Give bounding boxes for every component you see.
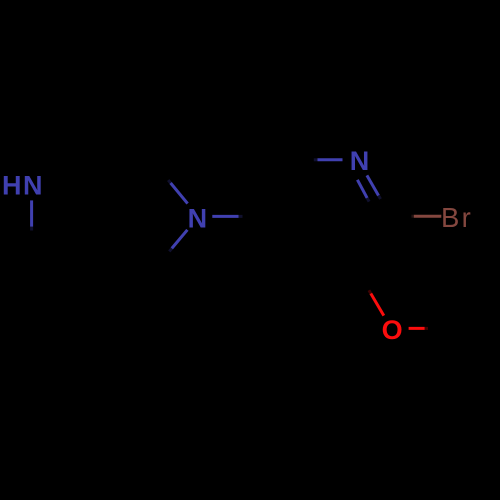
bond N4-C5' pyridine (blue half, horizontal right of N4) <box>212 215 238 218</box>
bond Npyr=C2 inner double-bond line (blue half) <box>357 180 367 198</box>
bond C2-Br (brown half, horizontal left of Br) <box>414 215 442 218</box>
tail of bond N4-C5 <box>169 248 172 251</box>
svg-text:O: O <box>382 315 403 345</box>
bond N4-C5 (blue half, diagonal down-left of N4) <box>172 230 188 249</box>
tail of double bond main line <box>379 196 381 200</box>
tail of bond C2-Br <box>411 215 413 218</box>
svg-text:N: N <box>188 203 208 233</box>
tail of bond N1-C7 <box>30 227 33 231</box>
tail of bond N4-C3 <box>168 180 170 183</box>
tail of bond C3-O <box>369 290 371 293</box>
svg-text:N: N <box>23 170 43 200</box>
bond O-CH3 (red half, horizontal right of O) <box>409 327 425 330</box>
bond N4-C3 (blue half, diagonal up-left of N4) <box>171 183 188 204</box>
tail of bond O-CH3 <box>425 327 428 330</box>
bond C3-O (red half, diagonal above O) <box>371 294 384 316</box>
svg-text:N: N <box>350 146 370 176</box>
tail of bond Npyr-C6 <box>314 158 318 161</box>
bond N1-C7 (blue half, vertical below HN) <box>30 200 33 226</box>
tail of double bond inner line <box>367 198 369 202</box>
svg-text:B: B <box>441 202 459 233</box>
tail of bond N4-pyridine <box>239 215 243 218</box>
faint carbon-half transition tails <box>32 160 428 329</box>
svg-text:r: r <box>462 202 471 233</box>
bond Npyr=C2 main line (blue half, diagonal down-right) <box>367 175 379 195</box>
bond Npyr-C6 (blue half, horizontal left of pyridine N) <box>318 158 343 161</box>
svg-text:H: H <box>2 170 22 200</box>
